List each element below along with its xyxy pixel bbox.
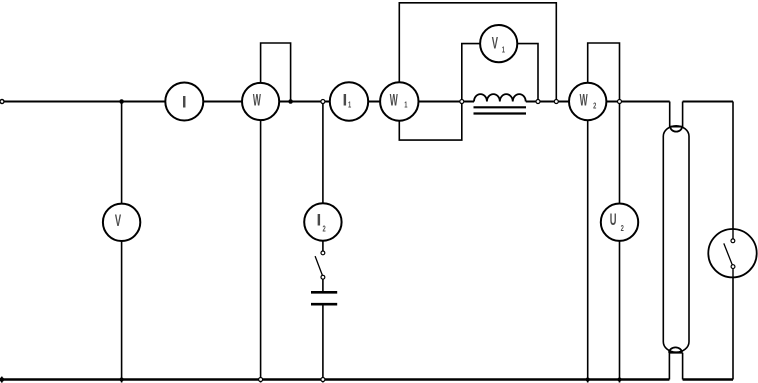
svg-text:I: I [317, 211, 322, 230]
voltmeter V [103, 204, 140, 241]
svg-text:1: 1 [502, 44, 505, 55]
svg-text:2: 2 [322, 223, 325, 234]
node terminal U2 branch top [618, 100, 622, 104]
node terminal I2 branch [321, 100, 325, 104]
wire W branch down [260, 102, 262, 383]
node terminal top-left [0, 100, 4, 104]
starter blade [724, 243, 733, 265]
wire bottom return line [1, 378, 734, 380]
node junction V branch bottom [120, 378, 124, 382]
starter top contact [732, 229, 734, 241]
starter S (glow starter) [708, 229, 756, 277]
switch S1 bottom contact [321, 275, 325, 279]
wattmeter W2 [569, 83, 606, 120]
wire top main line [2, 101, 733, 103]
wire I2 capacitor branch [322, 102, 324, 383]
ammeter I1 [330, 82, 368, 120]
lamp bottom pins [669, 353, 682, 380]
wire W1 bottom loop [399, 102, 462, 141]
node junction W2 branch bottom [586, 378, 590, 382]
svg-text:2: 2 [593, 100, 596, 111]
wire V branch [121, 102, 123, 383]
svg-text:U: U [610, 210, 617, 229]
svg-text:V: V [492, 34, 499, 53]
voltmeter V1 [480, 25, 517, 62]
node terminal inductor right [536, 100, 540, 104]
switch S1 blade (capacitor branch) [315, 256, 322, 276]
svg-text:1: 1 [404, 99, 407, 110]
svg-text:V: V [115, 211, 122, 230]
svg-text:W: W [253, 90, 261, 109]
svg-text:W: W [580, 90, 588, 109]
inductor L1 ballast [474, 94, 526, 101]
svg-text:W: W [390, 90, 398, 109]
ammeter I2 [304, 203, 341, 240]
node terminal W1 loop right [554, 100, 558, 104]
node junction capacitor bottom [321, 378, 325, 382]
wattmeter W1 [380, 82, 418, 120]
lamp top pins [670, 102, 683, 128]
node junction V branch top [119, 99, 124, 104]
wire W voltage loop [261, 43, 291, 102]
ammeter I [165, 83, 203, 121]
lamp top filament [670, 127, 682, 132]
lamp tube EL [663, 126, 689, 352]
svg-text:2: 2 [621, 223, 624, 234]
wire W1 top voltage loop [399, 3, 556, 102]
switch S1 top contact [321, 251, 325, 255]
svg-text:I: I [343, 91, 348, 110]
node junction U2 branch bottom [618, 378, 622, 382]
voltmeter U2 [601, 204, 638, 241]
wire right side (lamp right pin to starter to bottom) [732, 102, 734, 380]
inductor core lines [474, 107, 527, 113]
wire U2 branch [619, 102, 621, 383]
capacitor C plates [311, 291, 337, 294]
svg-text:1: 1 [348, 99, 351, 110]
node junction W loop [288, 99, 293, 104]
wire W2 voltage loop [588, 43, 620, 102]
wire V1 connections [462, 44, 538, 102]
svg-text:I: I [182, 93, 187, 112]
node terminal inductor left [460, 100, 464, 104]
wire W2 branch down [587, 102, 589, 383]
node junction W branch bottom [259, 378, 263, 382]
node terminal bottom-left [1, 377, 3, 383]
starter bottom contact [731, 265, 735, 269]
lamp bottom filament [669, 347, 682, 352]
wattmeter W [242, 83, 279, 120]
